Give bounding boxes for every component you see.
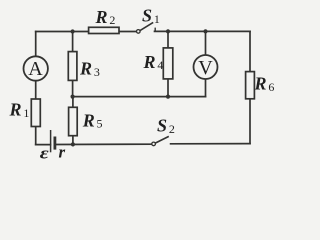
wire right branch top (249, 31, 251, 71)
ammeter A1 (24, 56, 48, 80)
wire R4 to middle row (167, 79, 169, 97)
wire top-left to S1 left contact (36, 31, 137, 33)
wire voltmeter branch top (205, 31, 207, 55)
node junction top R4 branch (166, 29, 170, 33)
svg-text:ε: ε (40, 145, 49, 163)
battery cell (long plate) (50, 130, 52, 152)
node junction middle R4 (166, 95, 170, 99)
resistor R4 (163, 48, 173, 79)
wire R5 to bottom wire (72, 136, 74, 145)
resistor R2 (89, 27, 119, 33)
voltmeter V1 (194, 55, 218, 79)
svg-text:r: r (59, 143, 66, 162)
wire left branch vertical (35, 32, 37, 57)
wire middle branch top (to R3) (72, 32, 74, 52)
wire middle node to R5 (72, 97, 74, 108)
wire R3 to middle node (72, 80, 74, 96)
wire middle horizontal node row (73, 96, 206, 98)
wire ammeter to R1 (35, 81, 37, 99)
wire R4 branch top (167, 31, 169, 48)
resistor R6 (246, 72, 255, 99)
wire bottom-left to battery (36, 144, 51, 146)
wire S1 right contact to top-right corner (155, 30, 251, 32)
node junction middle R3/R5 (71, 95, 75, 99)
svg-text:V: V (198, 57, 213, 79)
node junction top voltmeter branch (203, 29, 207, 33)
wire S2 right contact to bottom-right corner (171, 143, 250, 145)
wire R1 to bottom-left corner (35, 127, 37, 145)
battery cell (short thick plate) (54, 137, 57, 150)
wire voltmeter to middle row (205, 79, 207, 97)
resistor R1 (31, 99, 40, 127)
svg-text:A: A (28, 58, 43, 80)
resistor R5 (69, 107, 78, 135)
wire right branch bottom (249, 99, 251, 144)
node junction bottom R5 (71, 142, 75, 146)
resistor R3 (68, 52, 77, 81)
switch S2 (152, 136, 169, 145)
wire battery to S2 left contact (56, 143, 152, 145)
switch S1 (137, 22, 156, 33)
node junction top R3 branch (71, 29, 75, 33)
